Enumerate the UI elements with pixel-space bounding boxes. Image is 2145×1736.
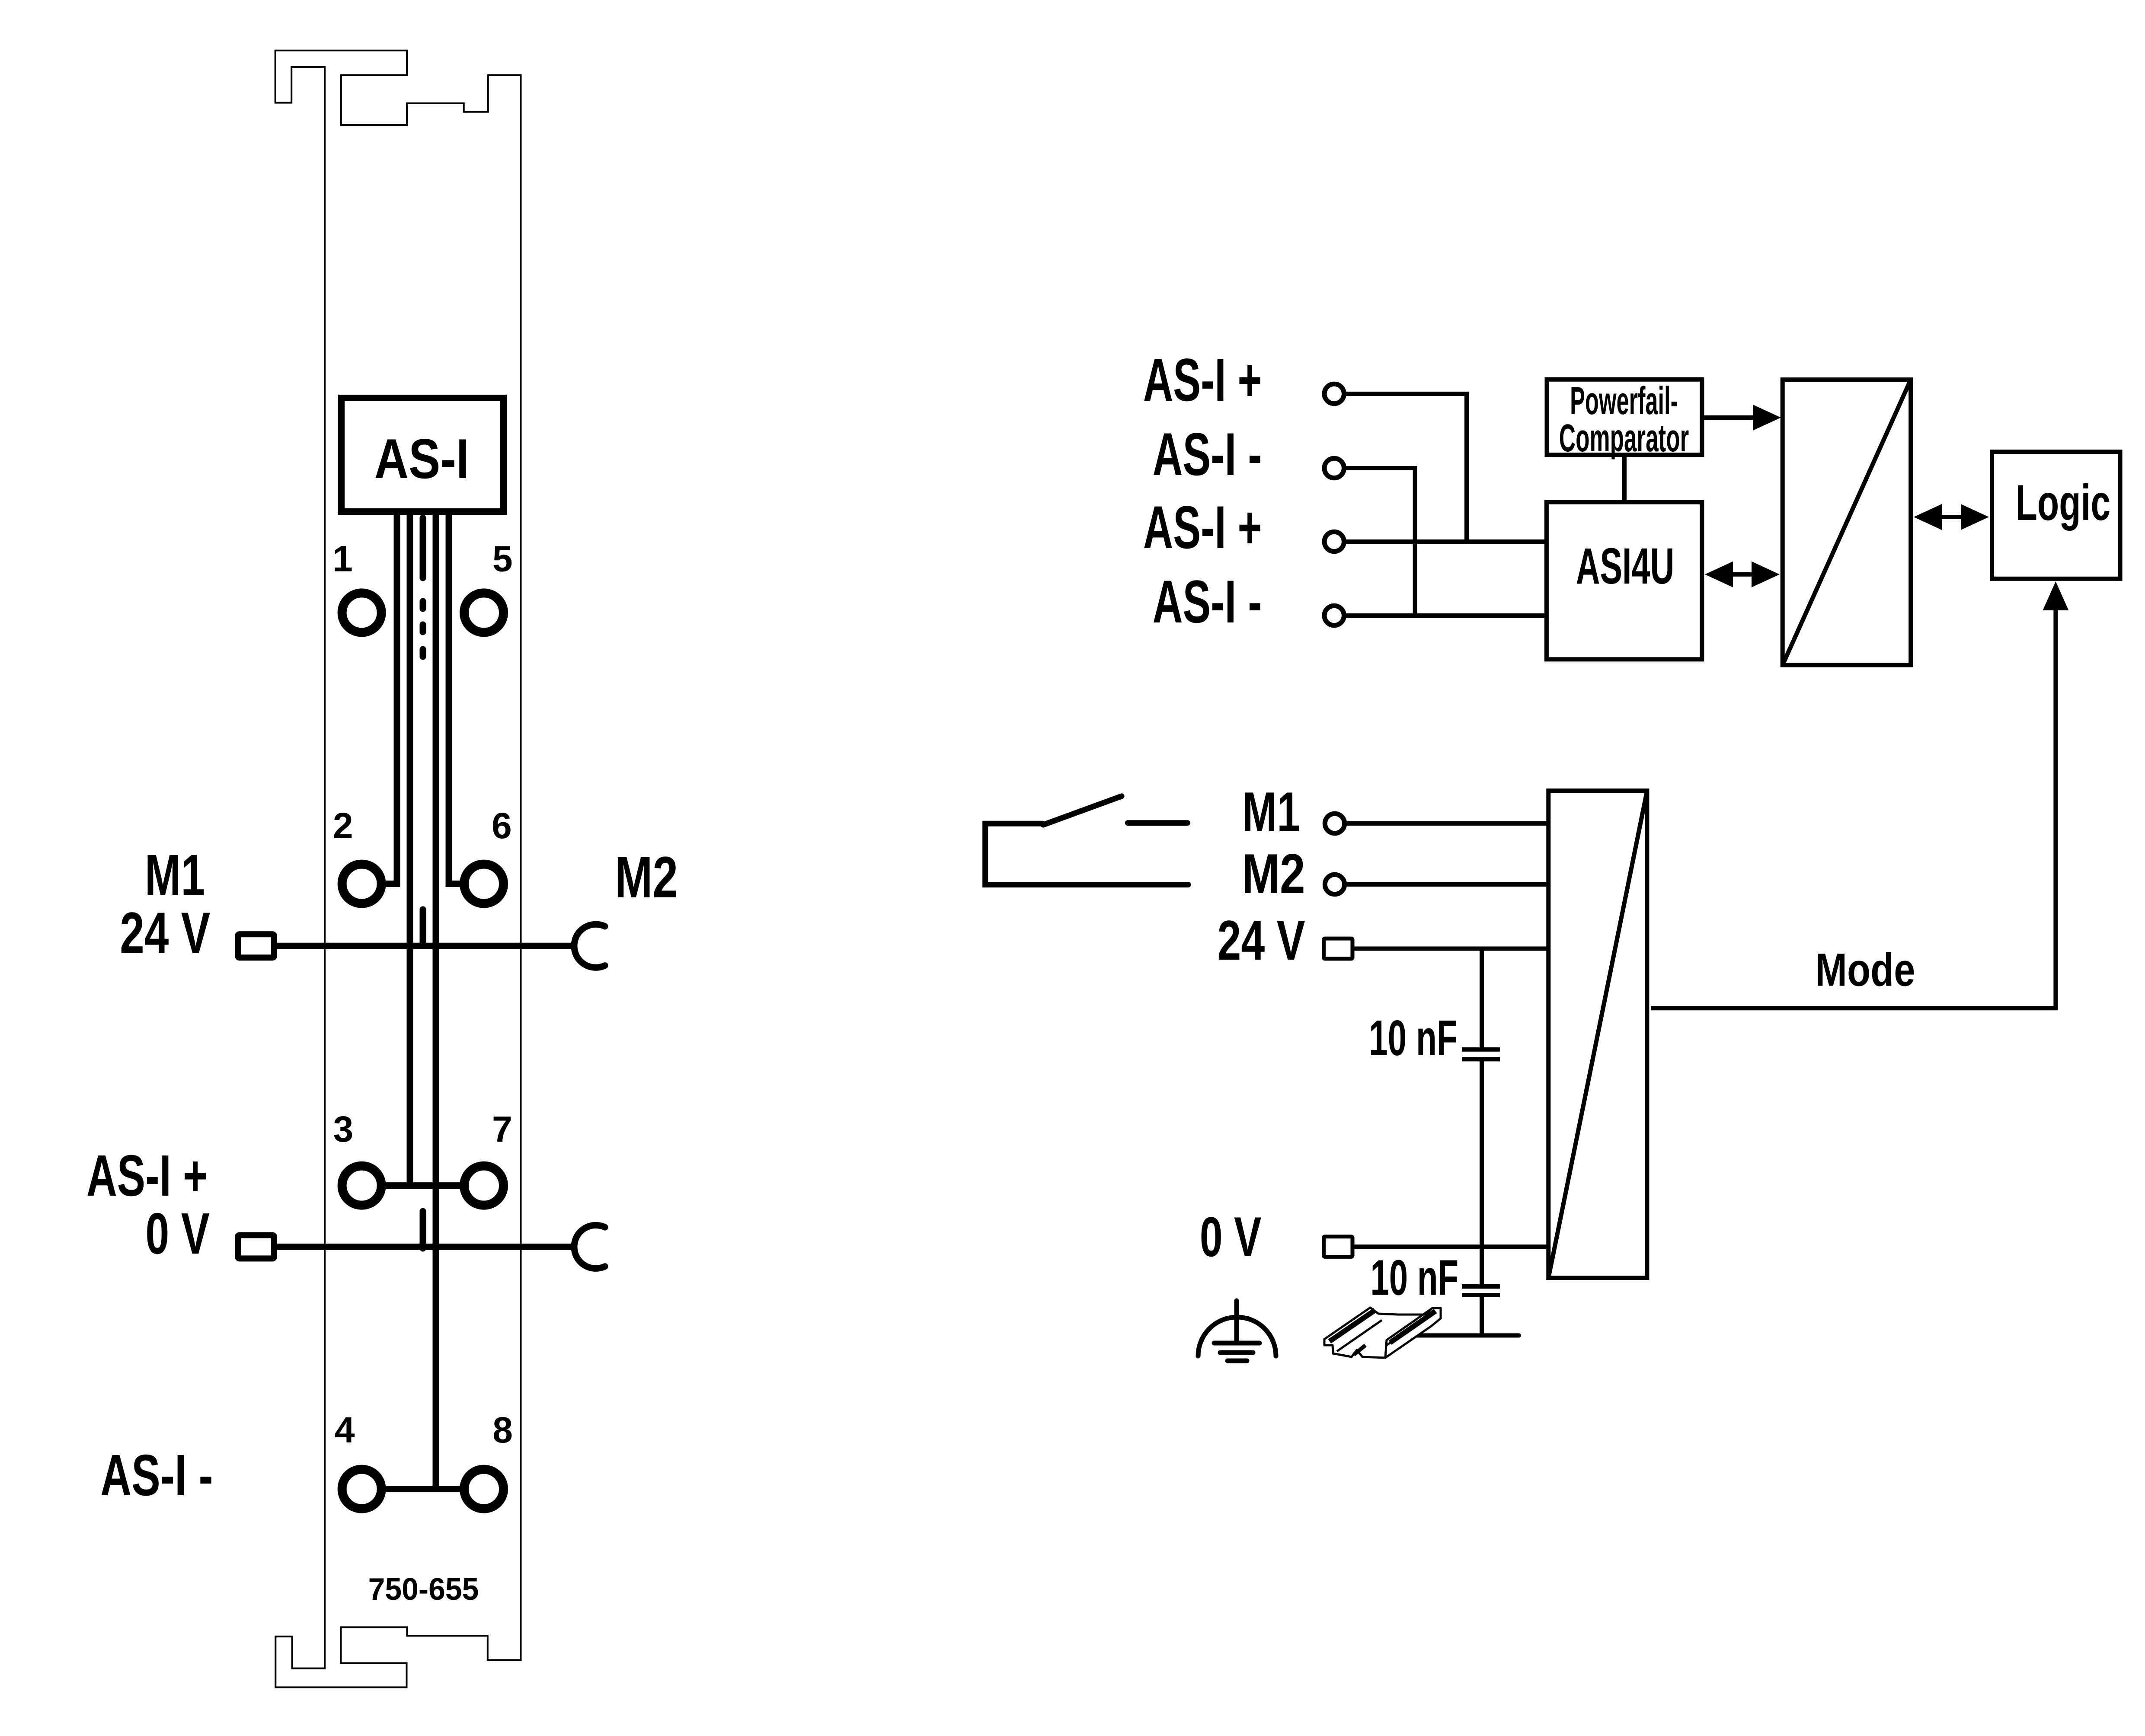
chassis wire to DIN rail bbox=[1417, 1333, 1519, 1337]
svg-text:M2: M2 bbox=[615, 845, 678, 910]
svg-text:M2: M2 bbox=[1242, 842, 1305, 905]
terminal square 0V left bbox=[238, 1235, 274, 1258]
wire bus line c dashed center bbox=[420, 518, 426, 1248]
isolation block 1 bbox=[1783, 380, 1911, 665]
wire 24V to block bbox=[1354, 947, 1548, 951]
svg-text:1: 1 bbox=[332, 539, 353, 579]
Mode arrow up into Logic bbox=[2053, 610, 2058, 1008]
contact 3 bbox=[342, 1166, 381, 1205]
svg-text:Powerfail-: Powerfail- bbox=[1570, 380, 1678, 423]
svg-text:8: 8 bbox=[492, 1410, 513, 1450]
terminal square 0V right bbox=[1324, 1237, 1353, 1257]
wire Powerfail to ASI4U bbox=[1622, 455, 1627, 502]
wire C2 to chassis bbox=[1480, 1297, 1484, 1335]
svg-text:Mode: Mode bbox=[1815, 943, 1915, 996]
svg-text:24 V: 24 V bbox=[1217, 909, 1305, 972]
svg-text:AS-I +: AS-I + bbox=[1143, 346, 1262, 414]
svg-text:AS-I -: AS-I - bbox=[1153, 568, 1262, 635]
terminal circle AS-I+ 1 bbox=[1324, 384, 1344, 403]
svg-text:M1: M1 bbox=[1242, 780, 1300, 843]
svg-text:AS-I -: AS-I - bbox=[1153, 420, 1262, 488]
contact 2 bbox=[342, 864, 381, 903]
arrow Powerfail to isolation bbox=[1704, 415, 1755, 420]
svg-text:3: 3 bbox=[333, 1109, 353, 1149]
capacitor C1 10nF bbox=[1462, 1047, 1500, 1052]
svg-text:5: 5 bbox=[492, 539, 513, 579]
DIN rail icon bbox=[1324, 1308, 1441, 1358]
wire AS-I- 4 to ASI4U bbox=[1344, 613, 1547, 618]
terminal circle M2 bbox=[1325, 874, 1344, 894]
Logic box bbox=[1992, 452, 2120, 579]
contact 7 bbox=[464, 1166, 504, 1205]
wire bridge contacts 3-7 bbox=[385, 1182, 460, 1189]
svg-text:4: 4 bbox=[335, 1410, 355, 1450]
double arrow ASI4U to isolation 1 bbox=[1732, 572, 1752, 577]
contact 6 bbox=[464, 864, 504, 903]
wire M1 to block bbox=[1345, 821, 1548, 826]
AS-I block bbox=[342, 398, 504, 512]
connector arc M2 row bbox=[574, 924, 605, 967]
contact 4 bbox=[342, 1469, 381, 1509]
contact 5 bbox=[464, 593, 504, 632]
svg-text:2: 2 bbox=[333, 805, 353, 846]
svg-text:AS-I +: AS-I + bbox=[1143, 493, 1262, 561]
ASI4U box bbox=[1547, 502, 1702, 660]
connector arc 0V row bbox=[574, 1225, 605, 1268]
svg-text:10 nF: 10 nF bbox=[1370, 1250, 1458, 1306]
switch symbol bbox=[985, 796, 1188, 885]
terminal circle M1 bbox=[1325, 814, 1344, 833]
svg-text:AS-I +: AS-I + bbox=[86, 1143, 208, 1208]
wire C1 to 0V bbox=[1480, 1061, 1484, 1247]
terminal circle AS-I- 2 bbox=[1324, 458, 1344, 478]
ground symbol bbox=[1198, 1301, 1276, 1361]
svg-text:6: 6 bbox=[492, 805, 512, 846]
terminal circle AS-I- 4 bbox=[1324, 606, 1344, 625]
isolation block 2 bbox=[1548, 791, 1647, 1278]
wire bus line d (to contacts 4/8 bridge) bbox=[433, 514, 439, 1489]
Powerfail-Comparator box bbox=[1547, 380, 1702, 455]
wire 24V row bbox=[277, 943, 571, 949]
svg-text:AS-I -: AS-I - bbox=[100, 1442, 213, 1508]
wire 0V row bbox=[277, 1244, 571, 1250]
double arrow isolation 1 to Logic bbox=[1941, 515, 1962, 519]
wire AS-I+ 1 bbox=[1344, 394, 1467, 542]
terminal square 24V left bbox=[238, 934, 274, 957]
wire 24V to capacitor C1 bbox=[1480, 949, 1484, 1048]
wire bus line a (to contact 2) bbox=[386, 514, 397, 884]
contact 1 bbox=[342, 593, 381, 632]
svg-text:ASI4U: ASI4U bbox=[1576, 538, 1675, 595]
svg-text:0 V: 0 V bbox=[145, 1201, 209, 1266]
terminal square 24V right bbox=[1324, 938, 1353, 959]
svg-text:0 V: 0 V bbox=[1200, 1205, 1262, 1268]
module 750-655 outline bbox=[275, 51, 521, 1688]
wire 0V to block bbox=[1354, 1245, 1548, 1249]
svg-text:AS-I: AS-I bbox=[374, 427, 470, 490]
svg-text:M1: M1 bbox=[145, 842, 205, 908]
Mode wire bbox=[1651, 1006, 2058, 1010]
wire bus line b (to contacts 3/7 bridge) bbox=[407, 514, 413, 1186]
svg-text:Logic: Logic bbox=[2016, 474, 2111, 531]
wire AS-I+ 3 to ASI4U bbox=[1344, 539, 1547, 544]
svg-text:750-655: 750-655 bbox=[368, 1572, 479, 1607]
svg-text:10 nF: 10 nF bbox=[1369, 1010, 1458, 1066]
wire AS-I- 2 bbox=[1344, 468, 1415, 616]
svg-text:7: 7 bbox=[492, 1109, 512, 1149]
capacitor C2 10nF bbox=[1462, 1284, 1500, 1289]
wire M2 to block bbox=[1345, 882, 1548, 887]
contact 8 bbox=[464, 1469, 504, 1509]
wire bus line e (to contact 6) bbox=[449, 514, 460, 884]
svg-text:Comparator: Comparator bbox=[1559, 417, 1689, 460]
terminal circle AS-I+ 3 bbox=[1324, 532, 1344, 551]
wire 0V to capacitor C2 bbox=[1480, 1247, 1484, 1284]
wire bridge contacts 4-8 bbox=[385, 1486, 460, 1492]
svg-text:24 V: 24 V bbox=[120, 900, 210, 966]
